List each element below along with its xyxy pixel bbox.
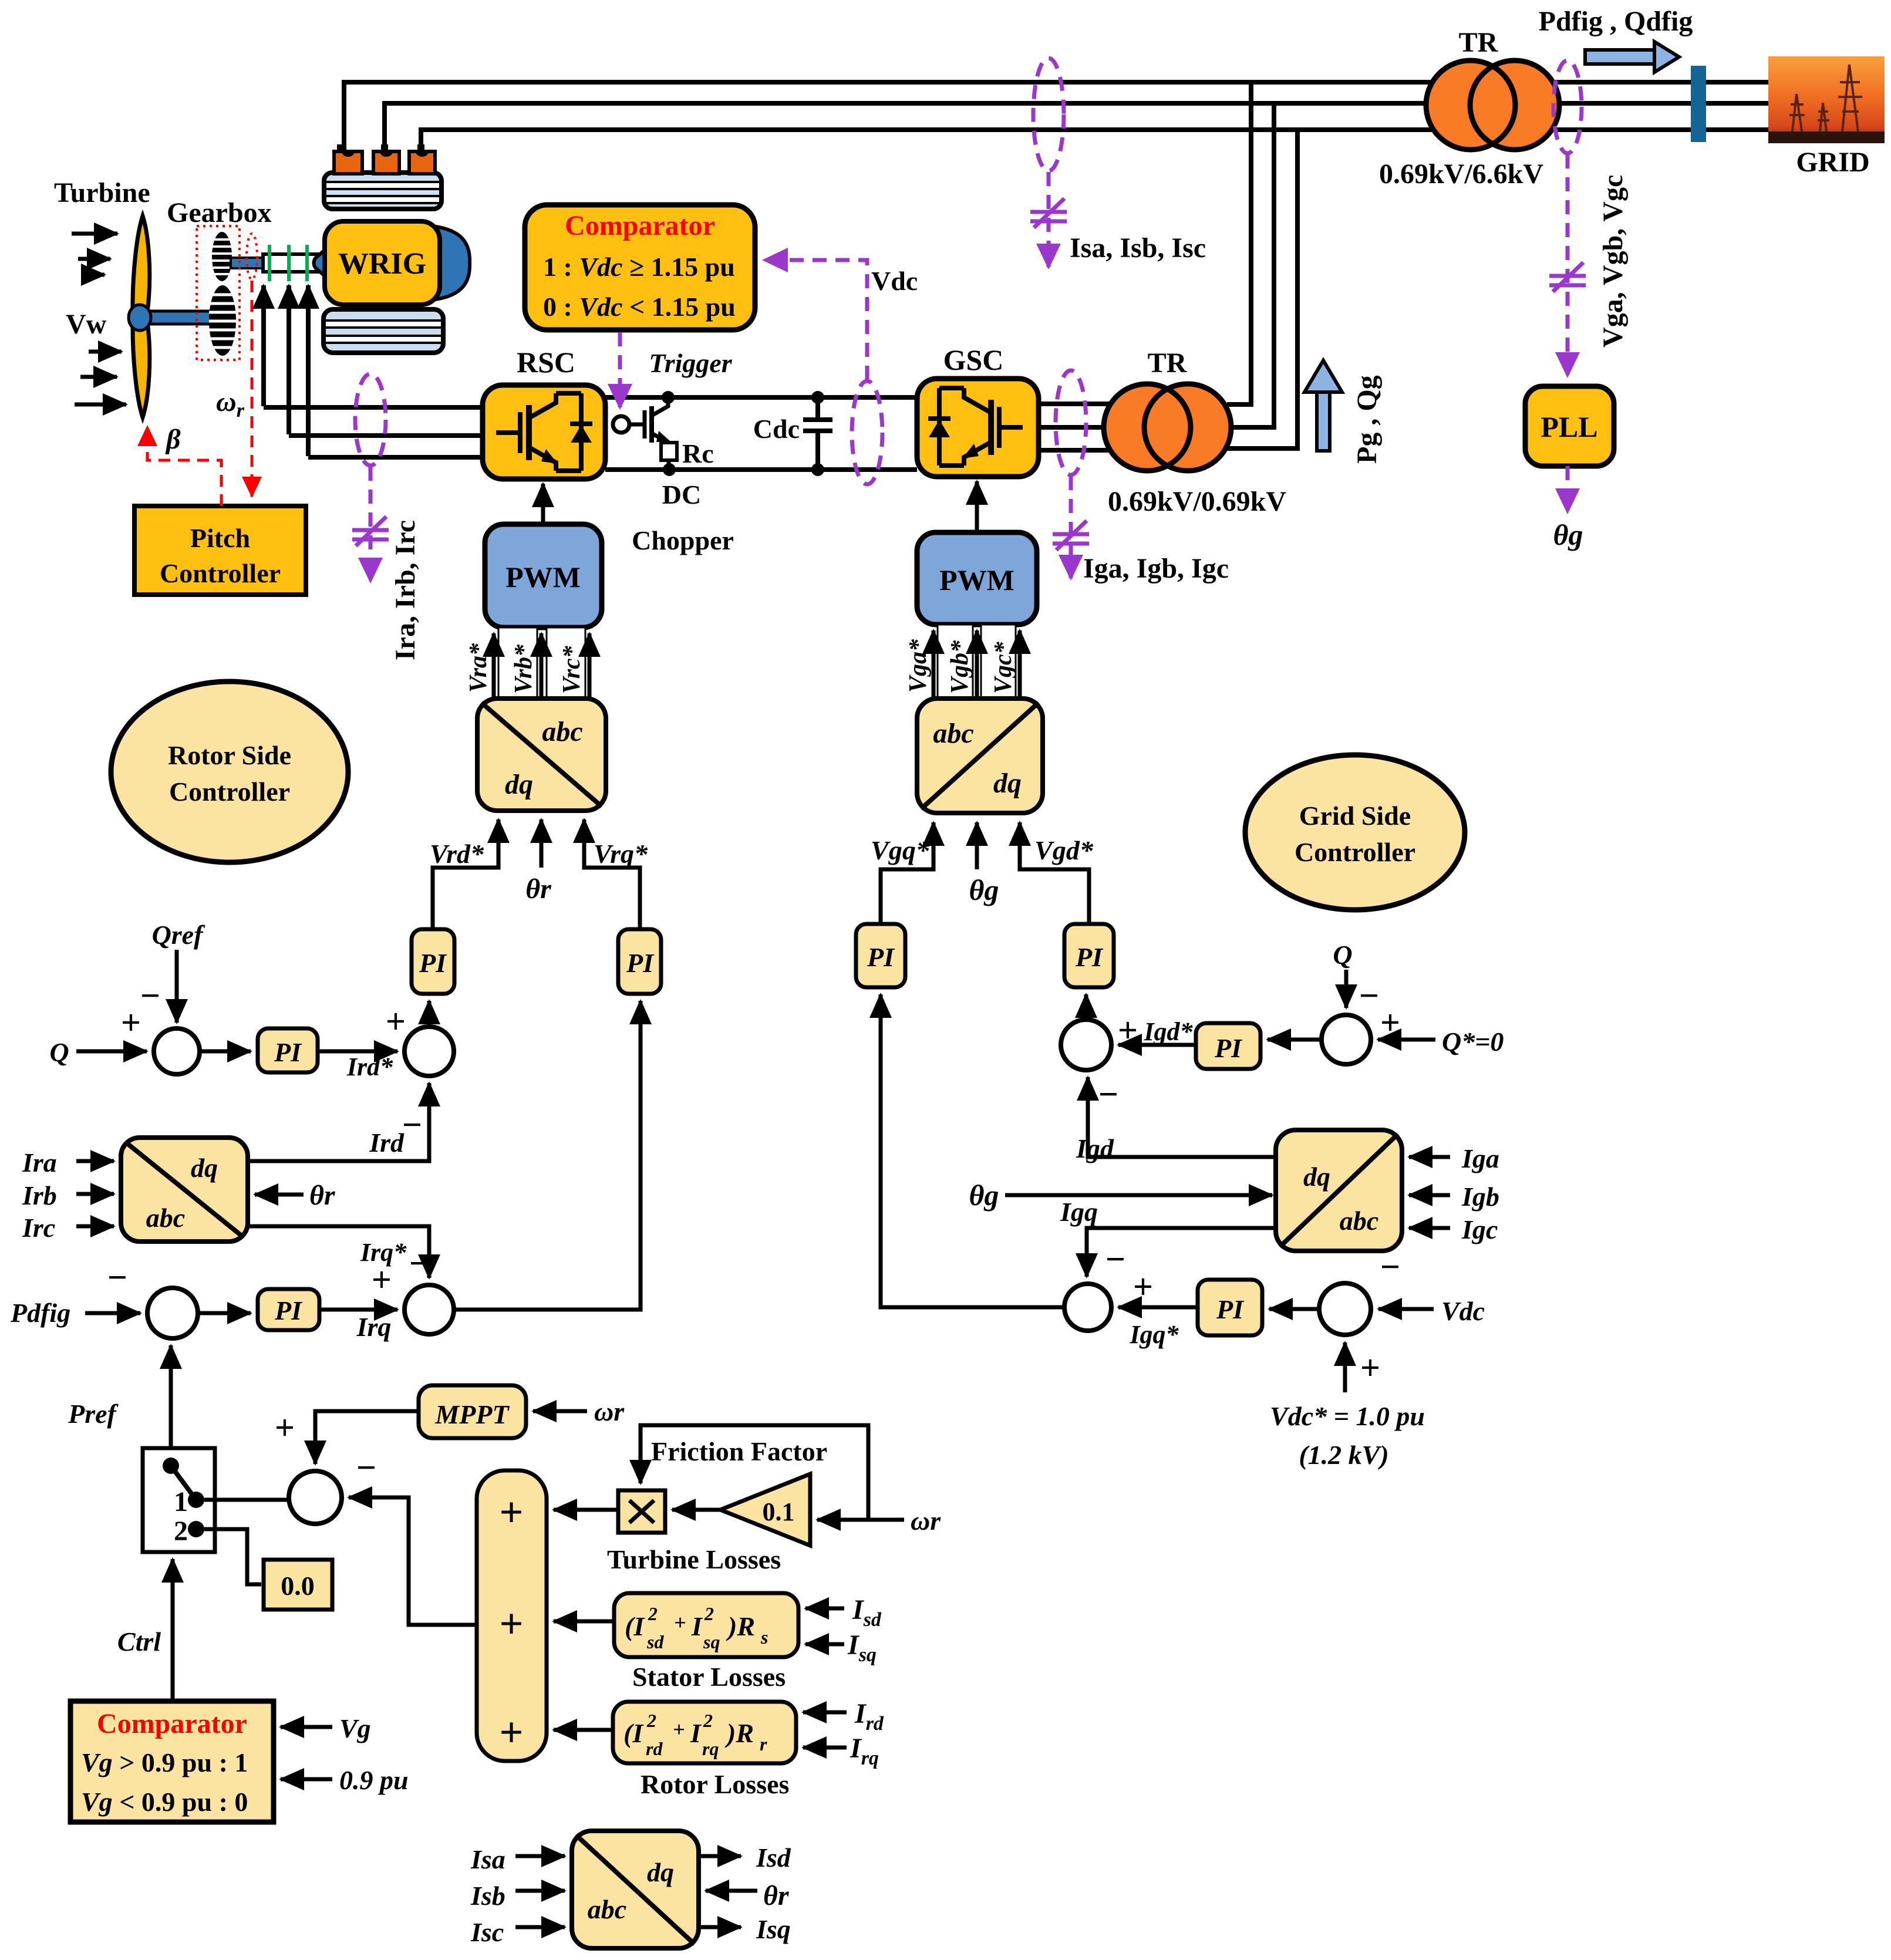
svg-text:Iga: Iga — [1461, 1143, 1499, 1173]
svg-text:Gearbox: Gearbox — [167, 197, 272, 228]
wire Vgb arrow — [975, 630, 979, 697]
wire Ira arrow — [76, 1159, 114, 1163]
rotor losses block — [613, 1702, 796, 1763]
svg-text:PLL: PLL — [1541, 410, 1597, 443]
svg-text:Rotor Side: Rotor Side — [168, 740, 291, 770]
summing junction Pdfig — [147, 1288, 198, 1338]
measurement dashed line Iga — [1069, 476, 1073, 578]
svg-text:Vrd*: Vrd* — [430, 839, 484, 869]
svg-text:TR: TR — [1459, 27, 1499, 58]
wire Ird feedback — [248, 1083, 429, 1161]
svg-text:RSC: RSC — [517, 346, 575, 379]
svg-text:WRIG: WRIG — [338, 247, 426, 281]
wire channel Vgb frame — [938, 625, 973, 699]
wind arrow 5 — [80, 375, 117, 379]
wire Vgd* path — [1020, 822, 1089, 924]
svg-text:Pref: Pref — [68, 1399, 119, 1429]
wind arrow 2 — [78, 257, 110, 261]
svg-text:PWM: PWM — [939, 564, 1014, 596]
generator shaft — [263, 254, 321, 272]
svg-text:MPPT: MPPT — [434, 1399, 510, 1429]
wire Vdc input — [1378, 1307, 1434, 1311]
svg-text:Pdfig: Pdfig — [10, 1298, 70, 1328]
wire Qstar input — [1378, 1038, 1435, 1042]
wire theta r into stator current block — [706, 1889, 757, 1893]
wire Iga input — [1409, 1155, 1450, 1159]
svg-text:Controller: Controller — [160, 558, 281, 588]
wire Isa arrow — [515, 1854, 565, 1858]
wire Q into junction — [76, 1050, 147, 1054]
wire triangle to multiplier — [672, 1508, 720, 1512]
multiplier block — [618, 1490, 665, 1533]
svg-text:Vgd*: Vgd* — [1034, 835, 1094, 865]
svg-text:1: 1 — [174, 1486, 188, 1517]
wire GSC transformer riser b — [1231, 103, 1274, 427]
svg-text:2: 2 — [174, 1516, 188, 1547]
summing junction Igq — [1064, 1284, 1111, 1331]
wire Irc arrow — [76, 1224, 114, 1229]
wire theta r into rotor current block — [255, 1193, 304, 1197]
svg-text:2: 2 — [704, 1603, 714, 1624]
wire friction factor loop — [817, 1518, 904, 1522]
svg-text:Vdc: Vdc — [1441, 1296, 1485, 1326]
svg-text:θg: θg — [969, 1179, 999, 1212]
svg-text:abc: abc — [588, 1894, 626, 1924]
svg-text:abc: abc — [1340, 1206, 1378, 1236]
pitch controller block — [134, 506, 306, 595]
svg-text:Isq: Isq — [847, 1630, 877, 1666]
PWM grid block — [917, 532, 1037, 625]
svg-text:Q: Q — [49, 1037, 69, 1067]
turbine blade upper — [133, 216, 150, 311]
svg-text:Q*=0: Q*=0 — [1442, 1027, 1504, 1057]
svg-text:Igc: Igc — [1461, 1215, 1498, 1244]
svg-text:Turbine: Turbine — [54, 177, 150, 208]
wire junction Q grid to PI Igd — [1268, 1038, 1322, 1042]
wire theta g into grid voltage transform — [975, 822, 979, 869]
svg-text:abc: abc — [933, 718, 973, 749]
busbar — [1691, 66, 1706, 142]
svg-text:Ctrl: Ctrl — [117, 1627, 161, 1657]
wire Vga arrow — [932, 630, 936, 697]
measurement ellipse Ira Irb Irc — [355, 374, 386, 465]
wire Vrd* path — [433, 819, 498, 929]
node chopper bottom junction — [663, 463, 676, 476]
svg-text:2: 2 — [703, 1710, 713, 1731]
losses sum block — [477, 1470, 547, 1761]
wire theta r arrow into rotor transform — [540, 819, 544, 868]
red dashed omega r to pitch controller — [251, 281, 254, 497]
svg-text:Stator Losses: Stator Losses — [632, 1662, 786, 1692]
capacitor Cdc — [803, 397, 832, 470]
wire GSC transformer riser a — [1227, 82, 1251, 404]
wire Pref up to junction — [169, 1345, 173, 1462]
wire channel Vgc frame — [981, 625, 1016, 699]
svg-text:Isd: Isd — [852, 1594, 882, 1631]
svg-text:0 : Vdc < 1.15 pu: 0 : Vdc < 1.15 pu — [543, 292, 736, 322]
switch lever — [171, 1466, 196, 1500]
svg-text:PI: PI — [1216, 1294, 1245, 1324]
WRIG left cone — [314, 245, 331, 281]
svg-text:+: + — [674, 1611, 686, 1634]
transform dq to abc rotor block — [477, 699, 606, 811]
svg-text:r: r — [760, 1733, 767, 1755]
wire rotor stub arrow c — [306, 285, 311, 456]
svg-text:Vg < 0.9 pu : 0: Vg < 0.9 pu : 0 — [81, 1787, 248, 1817]
wind arrow 3 — [84, 273, 105, 277]
svg-text:Vgc*: Vgc* — [990, 641, 1017, 694]
svg-text:)R: )R — [726, 1611, 755, 1641]
transform abc to dq grid voltage block — [917, 699, 1043, 813]
wire Isd output — [699, 1854, 741, 1858]
measurement dashed line Vdc to comparator — [764, 260, 867, 380]
measurement slash Isa — [1030, 198, 1067, 228]
svg-text:sq: sq — [703, 1631, 720, 1652]
WRIG stator bottom winding — [323, 309, 443, 353]
svg-text:Irq: Irq — [356, 1312, 392, 1342]
label stator losses formula — [625, 1603, 768, 1652]
wire GSC transformer riser c — [1227, 130, 1297, 448]
svg-text:2: 2 — [646, 1710, 656, 1731]
transformer TR 0.69kV/0.69kV — [1104, 384, 1191, 471]
wire GSC output a — [1039, 402, 1110, 406]
wire Irq input — [803, 1746, 847, 1750]
wire channel Vrb frame — [498, 628, 537, 699]
wire stator bus line c — [421, 130, 1435, 154]
WRIG stator top winding — [324, 173, 441, 209]
wire Vrc arrow — [588, 633, 592, 697]
wind arrow 6 — [75, 403, 126, 407]
svg-text:θr: θr — [763, 1880, 790, 1911]
turbine blade lower — [133, 323, 150, 417]
speed sensor red dotted ellipse — [247, 234, 257, 279]
svg-text:Igd: Igd — [1076, 1134, 1114, 1163]
gain triangle 0.1 — [720, 1474, 810, 1546]
wire grid bus right segment a — [1553, 80, 1769, 85]
svg-text:Ird: Ird — [369, 1128, 405, 1158]
svg-text:Igq: Igq — [1060, 1197, 1098, 1227]
wire grid bus right segment b — [1553, 101, 1769, 106]
svg-text:PI: PI — [1214, 1033, 1243, 1063]
wire rotor phase c — [308, 455, 483, 460]
svg-text:0.1: 0.1 — [763, 1497, 795, 1526]
svg-text:PI: PI — [626, 948, 655, 978]
svg-text:+: + — [673, 1718, 685, 1741]
svg-text:Pdfig , Qdfig: Pdfig , Qdfig — [1539, 6, 1693, 37]
summing junction Vdc — [1319, 1283, 1371, 1335]
arrow Pg Qg flow — [1317, 387, 1330, 451]
svg-text:Rotor Losses: Rotor Losses — [641, 1769, 789, 1799]
WRIG terminal b — [381, 144, 388, 153]
wire MPPT sum to switch 1 — [204, 1498, 289, 1502]
summing junction Irq — [405, 1285, 454, 1334]
svg-text:Isa: Isa — [470, 1844, 505, 1874]
svg-text:Controller: Controller — [1295, 837, 1415, 867]
wire junction Irq to PI Vrq — [454, 1001, 641, 1310]
svg-text:(1.2 kV): (1.2 kV) — [1299, 1440, 1388, 1470]
wire stator bus line b — [385, 103, 1435, 154]
svg-text:PWM: PWM — [505, 561, 581, 593]
wire Vgc arrow — [1018, 630, 1022, 697]
wire rotor stub arrow b — [286, 285, 291, 434]
wire Isq output — [699, 1925, 741, 1929]
svg-text:Iga, Igb, Igc: Iga, Igb, Igc — [1083, 553, 1229, 584]
svg-text:0.69kV/6.6kV: 0.69kV/6.6kV — [1379, 158, 1543, 190]
svg-text:−: − — [1105, 1240, 1125, 1278]
svg-text:+: + — [1380, 1003, 1400, 1042]
wire GSC output b — [1039, 425, 1110, 430]
svg-text:GRID: GRID — [1796, 147, 1869, 178]
svg-text:Pitch: Pitch — [190, 523, 250, 553]
svg-text:−: − — [409, 1244, 429, 1283]
svg-text:Igb: Igb — [1461, 1182, 1499, 1212]
wire junction to PI rotor Q — [200, 1050, 251, 1054]
svg-text:abc: abc — [542, 716, 582, 747]
svg-text:−: − — [402, 1105, 422, 1144]
gearbox large gear — [209, 285, 236, 356]
wire MPPT to sum junction — [315, 1411, 419, 1464]
measurement ellipse Vdc — [852, 381, 882, 484]
comparator trigger dashed arrow — [618, 332, 622, 407]
svg-text:0.0: 0.0 — [281, 1571, 315, 1601]
wire GSC output c — [1039, 448, 1110, 453]
svg-text:Vga*: Vga* — [905, 639, 932, 693]
shaft encoder tick 2 — [287, 245, 291, 281]
wire Ird input — [803, 1711, 847, 1715]
wire Ctrl to switch — [171, 1559, 175, 1701]
svg-text:PI: PI — [867, 942, 895, 972]
WRIG machine body — [325, 221, 440, 305]
PLL output dashed arrow — [1566, 466, 1570, 512]
PI block Igd — [1196, 1023, 1260, 1069]
svg-text:−: − — [140, 976, 160, 1015]
arrow Pdfig Qdfig flow — [1585, 50, 1654, 64]
svg-text:Comparator: Comparator — [565, 210, 715, 241]
svg-text:θg: θg — [1553, 518, 1583, 551]
svg-text:Pg , Qg: Pg , Qg — [1351, 375, 1383, 464]
wire Vra arrow — [492, 633, 496, 697]
svg-text:+: + — [275, 1408, 295, 1447]
rotor side controller ellipse — [111, 682, 348, 862]
gearbox small gear — [212, 232, 232, 281]
svg-text:DC: DC — [662, 480, 701, 510]
switch contact 2 — [188, 1521, 204, 1537]
svg-text:dq: dq — [505, 769, 533, 800]
wire PI Igd to junction — [1118, 1043, 1196, 1047]
PI block Vgd — [1064, 924, 1114, 987]
comparator Vdc block — [525, 205, 755, 330]
wind arrow 1 — [72, 232, 117, 236]
svg-text:Vgb*: Vgb* — [946, 640, 973, 694]
transform abc to dq rotor current block — [121, 1138, 248, 1242]
svg-text:GSC: GSC — [943, 343, 1004, 376]
summing junction Q grid — [1322, 1015, 1371, 1064]
svg-text:PI: PI — [1075, 942, 1104, 972]
WRIG right cone — [436, 227, 470, 299]
PWM rotor block — [485, 524, 602, 628]
svg-text:ωr: ωr — [216, 386, 245, 421]
svg-text:Irc: Irc — [22, 1213, 55, 1243]
wire channel Vrc frame — [547, 628, 585, 699]
svg-text:sd: sd — [646, 1631, 664, 1652]
measurement dashed line to PLL — [1566, 154, 1570, 376]
svg-text:−: − — [1359, 976, 1379, 1015]
svg-text:ωr: ωr — [594, 1396, 625, 1426]
svg-text:+: + — [499, 1709, 523, 1756]
svg-text:Grid Side: Grid Side — [1299, 801, 1411, 831]
summing junction Ird — [405, 1027, 454, 1076]
measurement ellipse Vga Vgb Vgc — [1553, 60, 1582, 153]
wire DC link negative rail — [605, 467, 917, 472]
measurement ellipse Iga Igb Igc — [1056, 370, 1086, 475]
turbine main shaft — [147, 311, 213, 324]
wire Vgq* path — [881, 822, 933, 924]
svg-text:−: − — [356, 1448, 376, 1487]
MPPT block — [419, 1385, 526, 1438]
wire PI to junction Irq — [319, 1308, 397, 1312]
wire PI Igq to junction — [1118, 1305, 1198, 1310]
wire rotor phase a — [264, 405, 483, 410]
summing junction Igd — [1061, 1020, 1111, 1070]
node Cdc top junction — [811, 391, 824, 404]
node chopper top junction — [662, 391, 675, 404]
svg-text:−: − — [1098, 1075, 1118, 1114]
svg-text:abc: abc — [146, 1203, 185, 1233]
svg-text:Vg: Vg — [339, 1713, 371, 1743]
svg-text:PI: PI — [274, 1037, 302, 1067]
wire Igq feedback — [1087, 1228, 1276, 1277]
stator losses block — [614, 1593, 798, 1657]
wire junction Igq to PI Vgq — [881, 994, 1064, 1307]
svg-text:β: β — [165, 424, 181, 455]
wire friction factor branch — [641, 1425, 868, 1520]
svg-text:I: I — [691, 1611, 703, 1641]
svg-text:dq: dq — [993, 768, 1022, 799]
shaft encoder tick 3 — [305, 245, 309, 281]
transistor DC chopper — [629, 399, 668, 443]
PLL block — [1525, 386, 1614, 466]
grid side controller ellipse — [1245, 755, 1465, 910]
wire junction Ird to PI Vrd — [427, 1001, 432, 1027]
converter GSC — [917, 379, 1039, 477]
measurement slash Ira — [352, 517, 389, 546]
wire Vg input — [281, 1725, 332, 1729]
svg-text:Vg > 0.9 pu : 1: Vg > 0.9 pu : 1 — [81, 1748, 248, 1777]
wire DC link positive rail — [605, 395, 917, 400]
WRIG terminal a — [337, 144, 344, 153]
transform dq to abc grid current block — [1276, 1130, 1402, 1251]
switch block — [143, 1448, 215, 1552]
DC chopper trigger input circle — [613, 416, 629, 433]
measurement dashed line Isa — [1047, 172, 1051, 267]
summing junction MPPT losses — [289, 1471, 342, 1524]
svg-text:Irq: Irq — [850, 1733, 879, 1769]
svg-text:Vw: Vw — [66, 309, 107, 340]
svg-text:PI: PI — [419, 948, 447, 978]
svg-text:Ira: Ira — [22, 1148, 57, 1178]
summing junction Q — [154, 1028, 200, 1074]
wire Isb arrow — [515, 1889, 565, 1893]
wire PI to junction Ird — [318, 1050, 397, 1054]
svg-text:Isa, Isb, Isc: Isa, Isb, Isc — [1070, 232, 1206, 264]
transformer TR 0.69kV/6.6kV — [1426, 60, 1515, 150]
wind arrow 4 — [89, 350, 122, 354]
PI block power — [258, 1289, 319, 1330]
resistor Rc — [661, 443, 677, 460]
svg-text:Vdc* = 1.0 pu: Vdc* = 1.0 pu — [1270, 1401, 1425, 1431]
WRIG terminal c — [417, 144, 424, 153]
svg-text:dq: dq — [647, 1857, 674, 1887]
svg-text:Friction Factor: Friction Factor — [651, 1436, 827, 1466]
node Cdc bottom junction — [811, 463, 824, 476]
PI block Vrq — [618, 929, 661, 994]
svg-text:0.69kV/0.69kV: 0.69kV/0.69kV — [1108, 486, 1286, 517]
wire multiplier to sum — [554, 1508, 618, 1512]
svg-text:Vrc*: Vrc* — [558, 645, 585, 694]
PI block Vgq — [856, 924, 905, 987]
PI block Vrd — [412, 929, 454, 994]
measurement ellipse Isa Isb Isc — [1033, 58, 1064, 171]
wire Qref down — [175, 950, 179, 1023]
svg-text:Igq*: Igq* — [1129, 1320, 1179, 1349]
svg-text:+: + — [499, 1600, 523, 1647]
wire Isd input — [805, 1607, 844, 1611]
svg-text:Isc: Isc — [470, 1917, 504, 1947]
wire stator losses to sum — [554, 1620, 614, 1624]
gearbox red dotted frame — [197, 226, 240, 360]
svg-text:Vrq*: Vrq* — [594, 839, 648, 869]
svg-text:)R: )R — [724, 1718, 754, 1748]
measurement dashed line Ira — [369, 467, 373, 581]
svg-text:Qref: Qref — [152, 920, 206, 950]
svg-text:Rc: Rc — [682, 438, 714, 468]
GRID image — [1768, 56, 1885, 143]
svg-text:Trigger: Trigger — [649, 348, 732, 378]
svg-text:+: + — [1133, 1267, 1153, 1306]
wire Igb input — [1409, 1193, 1450, 1197]
svg-text:2: 2 — [648, 1603, 658, 1624]
svg-text:Chopper: Chopper — [632, 525, 734, 555]
svg-text:TR: TR — [1148, 348, 1188, 379]
wire omega r to MPPT — [533, 1409, 587, 1414]
svg-text:Turbine Losses: Turbine Losses — [607, 1544, 781, 1574]
gearbox high speed shaft — [231, 258, 264, 268]
svg-text:+: + — [372, 1260, 392, 1299]
svg-text:Isd: Isd — [756, 1843, 791, 1873]
svg-text:Igd*: Igd* — [1143, 1017, 1193, 1046]
svg-text:s: s — [760, 1627, 768, 1648]
measurement slash Vga — [1549, 262, 1586, 292]
wire 0.9pu input — [281, 1777, 332, 1782]
red dashed beta from pitch controller — [147, 426, 221, 506]
converter RSC — [483, 385, 605, 479]
wire losses sum to junction — [349, 1497, 477, 1625]
wire Pdfig into junction — [85, 1311, 140, 1315]
wire Q grid down — [1344, 970, 1349, 1008]
svg-text:+: + — [1360, 1348, 1380, 1387]
PI block rotor Q — [258, 1028, 318, 1072]
label rotor losses formula — [623, 1710, 767, 1759]
svg-text:Cdc: Cdc — [753, 414, 800, 444]
svg-text:+: + — [499, 1489, 523, 1536]
measurement slash Iga — [1053, 521, 1089, 550]
svg-text:θr: θr — [525, 873, 552, 905]
PI block Igq — [1198, 1280, 1262, 1335]
wire junction Igd to PI Vgd — [1084, 994, 1088, 1020]
wire Igc input — [1409, 1226, 1450, 1230]
svg-text:θr: θr — [309, 1180, 336, 1211]
wire Irb arrow — [76, 1192, 114, 1196]
